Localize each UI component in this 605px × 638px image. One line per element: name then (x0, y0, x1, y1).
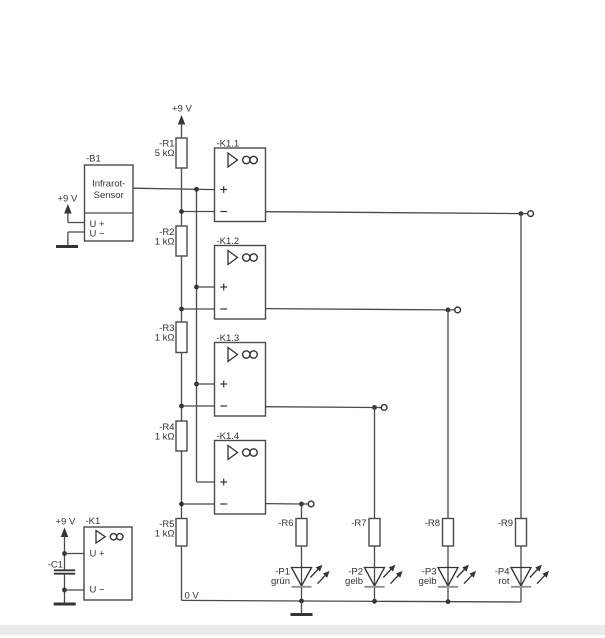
svg-text:Sensor: Sensor (94, 190, 124, 201)
svg-text:-R7: -R7 (351, 518, 366, 529)
svg-text:gelb: gelb (419, 576, 437, 587)
svg-text:rot: rot (498, 576, 509, 587)
svg-text:-R9: -R9 (498, 518, 513, 529)
svg-text:grün: grün (271, 576, 290, 587)
svg-text:-K1.3: -K1.3 (217, 333, 240, 344)
svg-text:5 kΩ: 5 kΩ (155, 148, 175, 159)
svg-text:1 kΩ: 1 kΩ (155, 432, 175, 443)
svg-text:1 kΩ: 1 kΩ (155, 237, 175, 248)
svg-text:U −: U − (90, 229, 106, 240)
svg-text:U +: U + (90, 549, 106, 560)
svg-text:1 kΩ: 1 kΩ (155, 529, 175, 540)
svg-text:Infrarot-: Infrarot- (92, 179, 125, 190)
svg-text:+9 V: +9 V (55, 516, 75, 527)
svg-text:-R6: -R6 (278, 518, 293, 529)
svg-text:0 V: 0 V (185, 591, 200, 602)
svg-text:gelb: gelb (345, 576, 363, 587)
svg-text:U −: U − (90, 584, 106, 595)
svg-text:-K1: -K1 (86, 516, 101, 527)
svg-text:-C1: -C1 (48, 560, 63, 571)
svg-text:-R8: -R8 (425, 518, 440, 529)
svg-text:-K1.1: -K1.1 (217, 138, 240, 149)
svg-text:-B1: -B1 (86, 154, 101, 165)
svg-text:-K1.4: -K1.4 (217, 431, 240, 442)
svg-text:+9 V: +9 V (172, 104, 192, 115)
svg-text:1 kΩ: 1 kΩ (155, 333, 175, 344)
svg-text:+9 V: +9 V (57, 193, 77, 204)
svg-text:-K1.2: -K1.2 (217, 236, 240, 247)
